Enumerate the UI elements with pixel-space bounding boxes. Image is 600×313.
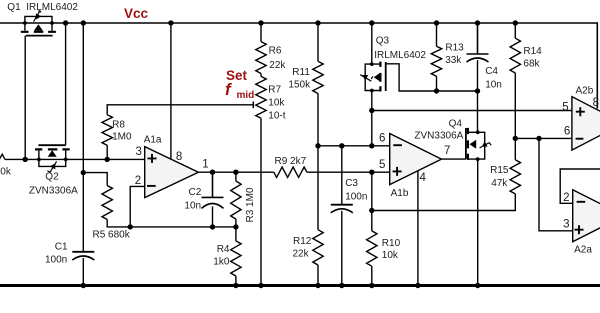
wire pin 5 node down to R10 bbox=[371, 172, 373, 231]
wire Vcc column down to C1 (crosses input wire) bbox=[82, 23, 84, 252]
wire C3 top lead (crosses pin 5 wire) bbox=[341, 146, 343, 205]
resistor R5 680k bbox=[102, 186, 112, 220]
svg-text:Q1 IRLML6402: Q1 IRLML6402 bbox=[7, 2, 78, 13]
transistor Q1 IRLML6402 (P-MOSFET, horizontal) bbox=[21, 10, 56, 35]
svg-text:100n: 100n bbox=[345, 192, 367, 203]
ground rail bbox=[0, 284, 600, 287]
svg-text:2: 2 bbox=[563, 192, 569, 204]
op-amp A1b bbox=[390, 134, 442, 185]
wire C1 bottom to ground bbox=[82, 258, 84, 286]
wire R14 top lead bbox=[514, 23, 516, 38]
svg-text:22k: 22k bbox=[269, 60, 286, 71]
svg-text:3: 3 bbox=[136, 146, 142, 158]
svg-text:R10: R10 bbox=[382, 238, 401, 249]
svg-text:10n: 10n bbox=[184, 201, 201, 212]
resistor R12 22k bbox=[313, 230, 323, 265]
wire R6 top lead bbox=[260, 23, 262, 42]
wire input node to A1a pin 3 bbox=[5, 158, 145, 160]
junction Q3 drain / pin 6 wire bbox=[369, 143, 374, 148]
wire R12 to ground bbox=[317, 265, 319, 286]
wire A2a pin 2 feedback loop bbox=[560, 169, 600, 203]
svg-text:R11: R11 bbox=[292, 67, 310, 78]
svg-text:8: 8 bbox=[176, 151, 182, 163]
svg-text:10k: 10k bbox=[268, 98, 285, 109]
svg-text:R12: R12 bbox=[293, 236, 312, 247]
svg-text:Q2: Q2 bbox=[45, 172, 59, 183]
junction R7 on ground rail bbox=[258, 283, 263, 288]
junction Q4 on ground rail bbox=[475, 283, 480, 288]
wire R14 bottom to A2b pin 6 node (crosses pin5 wire) bbox=[514, 73, 516, 138]
junction pin 2 / feedback node bbox=[128, 224, 133, 229]
svg-text:A1b: A1b bbox=[391, 188, 409, 199]
svg-text:7: 7 bbox=[444, 145, 450, 157]
svg-text:IRLML6402: IRLML6402 bbox=[374, 50, 426, 61]
svg-text:68k: 68k bbox=[523, 58, 540, 69]
junction R12 on ground rail bbox=[315, 283, 320, 288]
svg-text:5: 5 bbox=[379, 159, 385, 171]
wire Q1 gate down to input node bbox=[24, 36, 26, 160]
Q2 terminal dot (left) bbox=[37, 158, 41, 162]
junction C1 on ground rail bbox=[81, 283, 86, 288]
svg-text:R7: R7 bbox=[268, 85, 281, 96]
svg-text:10k: 10k bbox=[0, 166, 12, 177]
svg-text:33k: 33k bbox=[445, 55, 462, 66]
junction R15 return / R10 column bbox=[369, 208, 374, 213]
svg-text:A2a: A2a bbox=[574, 244, 592, 255]
wire pin 6 node down to A2a pin 3 bbox=[539, 138, 573, 230]
resistor Rin 10k (cut at left edge) bbox=[0, 154, 5, 164]
R7 wiper T-bar bbox=[252, 102, 254, 109]
svg-text:R8: R8 bbox=[112, 120, 125, 131]
svg-text:mid: mid bbox=[237, 90, 255, 101]
svg-text:10n: 10n bbox=[485, 80, 502, 91]
wire C2 bottom to feedback node bbox=[212, 206, 214, 227]
capacitor C1 100n bbox=[72, 251, 94, 253]
wire R13 top lead bbox=[436, 23, 438, 46]
op-amp A1a bbox=[145, 147, 199, 198]
Q1 terminal dot (right) bbox=[50, 21, 54, 25]
svg-text:R6: R6 bbox=[269, 46, 282, 57]
wire R7 bottom to ground bbox=[260, 118, 262, 285]
svg-text:C2: C2 bbox=[189, 187, 202, 198]
wire Q3 drain to A2b pin 5 bbox=[372, 110, 572, 112]
svg-text:4: 4 bbox=[420, 172, 427, 184]
junction Q1 gate / input wire bbox=[23, 157, 28, 162]
junction on Vcc rail at x=83 bbox=[81, 20, 86, 25]
svg-text:1M0: 1M0 bbox=[112, 132, 132, 143]
Q3 terminal dot (bottom) bbox=[370, 89, 374, 93]
junction R13 on Vcc rail bbox=[434, 20, 439, 25]
junction R13 / gate wire bbox=[434, 88, 439, 93]
wire R3 bottom lead bbox=[235, 219, 237, 227]
wire R15 top lead bbox=[514, 138, 516, 159]
wire Q2 gate riser to Vcc rail / Q1 drain bbox=[65, 23, 67, 145]
svg-text:1k0: 1k0 bbox=[213, 257, 230, 268]
wire Vcc to Q3 bbox=[371, 23, 373, 64]
svg-text:2: 2 bbox=[135, 175, 141, 187]
wire A2b pin 6 node bbox=[515, 137, 572, 139]
wire R6 to R7 bbox=[260, 74, 262, 77]
svg-text:5: 5 bbox=[562, 101, 568, 113]
wire C4 bottom lead bbox=[477, 60, 479, 91]
resistor R13 33k bbox=[431, 46, 441, 76]
junction R5 tap bbox=[81, 170, 86, 175]
svg-text:R9 2k7: R9 2k7 bbox=[275, 156, 307, 167]
junction C3 on ground rail bbox=[339, 283, 344, 288]
wire R5 bottom along feedback node y=227 bbox=[107, 220, 236, 227]
Q4 terminal dot (bottom) bbox=[476, 157, 480, 161]
wire gate node down to Q4 drain bbox=[477, 91, 479, 132]
junction R3 bottom / feedback node bbox=[233, 224, 238, 229]
wire R9 to A1b pin 5 bbox=[307, 171, 390, 173]
junction Q3 drain / A2b pin 5 wire bbox=[369, 108, 374, 113]
junction R8 / input wire bbox=[105, 157, 110, 162]
op-amp A2a (partially clipped at right edge) bbox=[573, 190, 600, 242]
junction R11/R12 on pin 6 wire bbox=[315, 143, 320, 148]
svg-text:R4: R4 bbox=[217, 244, 230, 255]
wire A1a output to R9 bbox=[198, 171, 273, 173]
transistor Q2 ZVN3306A (N-MOSFET, horizontal) bbox=[35, 145, 70, 172]
svg-text:ZVN3306A: ZVN3306A bbox=[414, 131, 463, 142]
capacitor C3 100n bbox=[331, 204, 353, 206]
svg-text:1: 1 bbox=[202, 159, 208, 171]
transistor Q3 IRLML6402 (P-MOSFET, vertical) bbox=[360, 62, 386, 92]
resistor R10 10k bbox=[367, 231, 377, 266]
svg-text:47k: 47k bbox=[491, 178, 508, 189]
wire R11 top lead bbox=[317, 23, 319, 61]
junction A2a pin 3 tap bbox=[536, 136, 541, 141]
wire C3 bottom to ground bbox=[341, 211, 343, 286]
wire A1b pin 4 to ground bbox=[417, 171, 419, 286]
svg-text:10-t: 10-t bbox=[268, 110, 285, 121]
svg-text:Q3: Q3 bbox=[376, 36, 390, 47]
junction R10 on ground rail bbox=[369, 283, 374, 288]
wire R10 to ground bbox=[371, 266, 373, 285]
wire A1a pin 8 to Vcc rail bbox=[170, 23, 172, 159]
svg-text:C4: C4 bbox=[485, 66, 498, 77]
junction R11 on Vcc rail bbox=[315, 20, 320, 25]
svg-text:R13: R13 bbox=[445, 42, 464, 53]
junction A1a pin 8 on Vcc rail bbox=[168, 20, 173, 25]
junction Q3 source on Vcc rail bbox=[369, 20, 374, 25]
svg-text:10k: 10k bbox=[382, 250, 399, 261]
junction R14 on Vcc rail bbox=[513, 20, 518, 25]
svg-text:100n: 100n bbox=[45, 255, 67, 266]
svg-text:6: 6 bbox=[564, 126, 570, 138]
svg-text:C3: C3 bbox=[345, 178, 358, 189]
Q2 terminal dot (right) bbox=[64, 158, 68, 162]
wire R8 bottom to input node bbox=[106, 145, 108, 159]
svg-text:R14: R14 bbox=[523, 46, 542, 57]
wire Q4 source to ground bbox=[477, 159, 479, 285]
resistor R15 47k bbox=[510, 160, 520, 194]
wire R13 bottom lead bbox=[436, 76, 438, 91]
wire A1a pin 2 to feedback node bbox=[130, 186, 145, 227]
svg-text:R15: R15 bbox=[490, 165, 509, 176]
svg-text:R5 680k: R5 680k bbox=[93, 230, 131, 241]
wire Q3 drain down to A1b pin 6 node bbox=[371, 91, 373, 146]
svg-text:6: 6 bbox=[379, 132, 385, 144]
op-amp A2b (partially clipped at right edge) bbox=[572, 97, 600, 151]
svg-text:8: 8 bbox=[593, 97, 599, 109]
junction R6 on Vcc rail bbox=[258, 20, 263, 25]
wire A1b pin 6 node bbox=[318, 145, 390, 147]
capacitor C4 10n bbox=[467, 23, 489, 54]
wire A1b output pin 7 to Q4 gate bbox=[442, 158, 466, 160]
junction C3 on pin 6 wire bbox=[339, 143, 344, 148]
resistor R3 1M0 bbox=[231, 181, 241, 219]
transistor Q4 ZVN3306A (N-MOSFET, vertical) bbox=[466, 128, 491, 160]
junction R3 top on output bbox=[233, 170, 238, 175]
wire R3 top lead bbox=[235, 172, 237, 181]
svg-text:Vcc: Vcc bbox=[124, 6, 149, 21]
svg-text:C1: C1 bbox=[55, 242, 68, 253]
junction C2 bottom bbox=[210, 224, 215, 229]
svg-text:A2b: A2b bbox=[576, 86, 594, 97]
junction C2 top on output bbox=[210, 170, 215, 175]
junction R14/R15 on pin 6 wire bbox=[513, 136, 518, 141]
junction C4 on Vcc rail bbox=[475, 20, 480, 25]
potentiometer R7 10k 10-turn bbox=[256, 76, 266, 118]
svg-text:22k: 22k bbox=[293, 249, 310, 260]
junction R10 / pin 5 wire bbox=[369, 170, 374, 175]
wire Vcc rail across top, dropping to A2b pin 8 bbox=[0, 23, 597, 109]
svg-text:Q4: Q4 bbox=[449, 118, 463, 129]
Q1 terminal dot (left) bbox=[23, 21, 27, 25]
wire R4 top lead bbox=[235, 227, 237, 241]
wire R15 return to A1b pin 5 node bbox=[372, 194, 516, 211]
resistor R4 1k0 bbox=[231, 241, 241, 276]
svg-text:R3 1M0: R3 1M0 bbox=[245, 187, 256, 222]
resistor R14 68k bbox=[510, 38, 520, 73]
wire R8 top to R7 wiper bbox=[107, 105, 253, 115]
wire junction to R5 top bbox=[83, 173, 107, 186]
resistor R9 2k7 bbox=[274, 167, 307, 177]
svg-text:A1a: A1a bbox=[144, 134, 162, 145]
resistor R6 22k bbox=[256, 42, 266, 74]
resistor R8 1M0 bbox=[102, 115, 112, 145]
wire R4 to ground bbox=[235, 276, 237, 286]
svg-text:ZVN3306A: ZVN3306A bbox=[29, 186, 78, 197]
resistor R11 150k bbox=[313, 61, 323, 93]
svg-text:150k: 150k bbox=[288, 80, 311, 91]
svg-text:3: 3 bbox=[563, 218, 569, 230]
Q4 terminal dot (top) bbox=[476, 130, 480, 134]
junction R4 on ground rail bbox=[233, 283, 238, 288]
junction C4 / gate wire / Q4 drain bbox=[475, 88, 480, 93]
capacitor C2 10n bbox=[202, 172, 224, 197]
junction Q2 gate riser on Vcc rail bbox=[63, 20, 68, 25]
Q3 terminal dot (top) bbox=[370, 62, 374, 66]
wire Q3 gate step to R13 and C4 bbox=[386, 64, 478, 91]
junction pin 4 on ground rail bbox=[415, 283, 420, 288]
wire R11 bottom through A1b pin 6 node down to R12 bbox=[317, 94, 319, 230]
